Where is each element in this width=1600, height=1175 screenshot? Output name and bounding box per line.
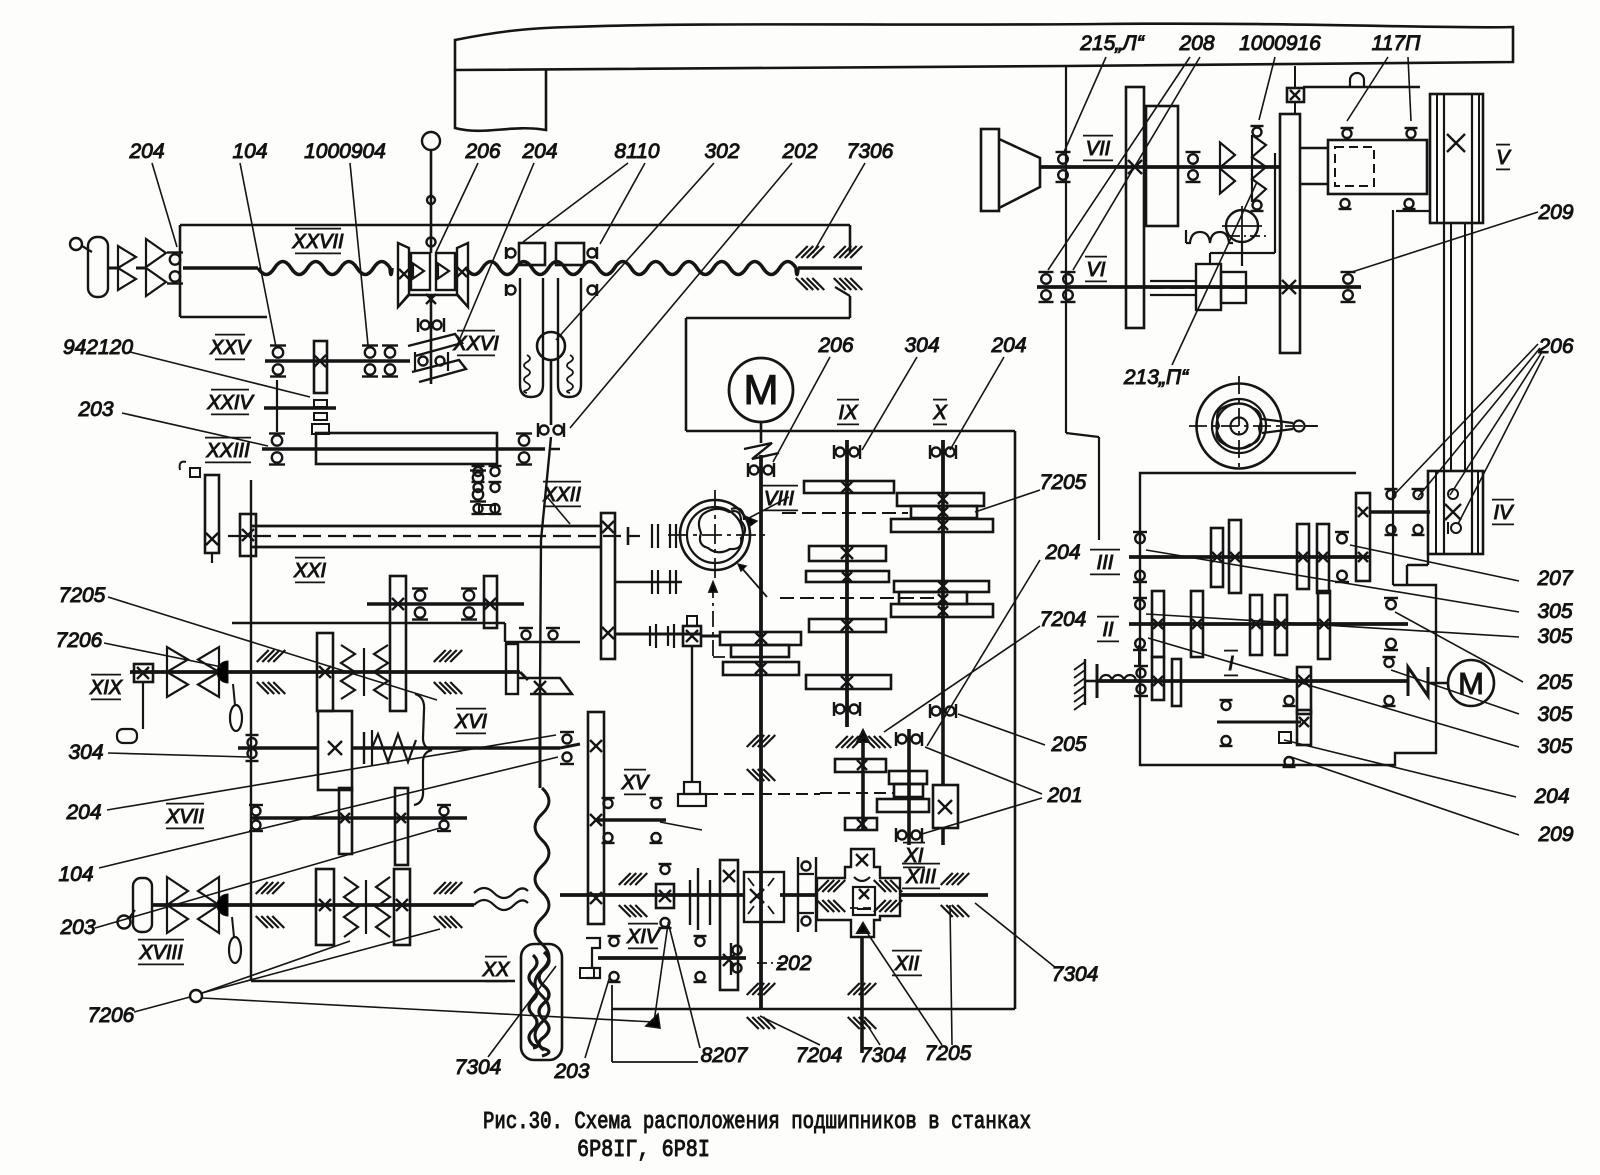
svg-text:8207: 8207 xyxy=(701,1044,749,1067)
svg-text:304: 304 xyxy=(68,741,103,764)
svg-text:7206: 7206 xyxy=(88,1004,135,1027)
svg-text:302: 302 xyxy=(704,140,739,163)
svg-text:XXV: XXV xyxy=(209,337,252,359)
svg-text:206: 206 xyxy=(464,140,500,163)
svg-text:209: 209 xyxy=(1537,823,1573,846)
svg-text:104: 104 xyxy=(232,140,267,163)
svg-text:7204: 7204 xyxy=(1040,608,1087,631)
svg-text:XVII: XVII xyxy=(165,806,204,828)
svg-text:1000916: 1000916 xyxy=(1239,32,1321,55)
svg-text:III: III xyxy=(1097,552,1114,574)
svg-text:204: 204 xyxy=(1533,785,1569,808)
svg-text:206: 206 xyxy=(1537,335,1573,358)
svg-text:XIII: XIII xyxy=(905,866,936,888)
svg-text:305: 305 xyxy=(1537,625,1572,648)
svg-text:7205: 7205 xyxy=(1040,471,1087,494)
svg-text:7306: 7306 xyxy=(847,140,894,163)
svg-text:215„Л“: 215„Л“ xyxy=(1079,32,1144,55)
svg-text:7205: 7205 xyxy=(925,1042,972,1065)
svg-text:305: 305 xyxy=(1537,703,1572,726)
svg-text:202: 202 xyxy=(781,140,817,163)
svg-text:XX: XX xyxy=(482,959,510,981)
svg-text:V: V xyxy=(1496,147,1511,169)
svg-text:7304: 7304 xyxy=(1052,963,1099,986)
svg-text:XIV: XIV xyxy=(626,926,661,948)
svg-text:7204: 7204 xyxy=(796,1044,843,1067)
svg-text:205: 205 xyxy=(1050,733,1086,756)
svg-text:7206: 7206 xyxy=(56,629,103,652)
svg-text:X: X xyxy=(932,402,947,424)
svg-text:I: I xyxy=(1228,653,1234,675)
svg-text:7205: 7205 xyxy=(59,584,106,607)
svg-text:XV: XV xyxy=(621,772,650,794)
svg-text:VIII: VIII xyxy=(764,488,794,510)
svg-text:204: 204 xyxy=(1044,541,1080,564)
svg-text:204: 204 xyxy=(521,140,557,163)
svg-text:201: 201 xyxy=(1046,784,1082,807)
svg-text:203: 203 xyxy=(77,398,113,421)
svg-text:202: 202 xyxy=(775,952,811,975)
svg-text:Рис.30. Схема расположения под: Рис.30. Схема расположения подшипников в… xyxy=(483,1109,1031,1136)
svg-text:209: 209 xyxy=(1537,201,1573,224)
svg-text:203: 203 xyxy=(553,1060,589,1083)
svg-text:XXVII: XXVII xyxy=(291,231,344,253)
svg-text:XVI: XVI xyxy=(454,711,488,733)
svg-text:213„П“: 213„П“ xyxy=(1123,366,1189,389)
svg-text:VII: VII xyxy=(1086,138,1111,160)
svg-text:II: II xyxy=(1102,619,1114,641)
svg-text:204: 204 xyxy=(990,334,1026,357)
svg-text:IV: IV xyxy=(1494,502,1515,524)
svg-text:7304: 7304 xyxy=(860,1044,907,1067)
svg-text:205: 205 xyxy=(1536,671,1572,694)
svg-text:6Р8IГ, 6Р8I: 6Р8IГ, 6Р8I xyxy=(577,1137,710,1164)
svg-text:7304: 7304 xyxy=(455,1056,502,1079)
svg-text:204: 204 xyxy=(128,140,164,163)
svg-text:XVIII: XVIII xyxy=(138,942,183,964)
svg-text:XXVI: XXVI xyxy=(452,333,499,355)
svg-text:XXI: XXI xyxy=(293,560,327,582)
svg-text:VI: VI xyxy=(1087,259,1106,281)
svg-text:203: 203 xyxy=(59,916,95,939)
svg-text:IX: IX xyxy=(839,402,859,424)
svg-text:M: M xyxy=(1458,666,1484,701)
svg-text:104: 104 xyxy=(58,863,93,886)
svg-text:204: 204 xyxy=(65,801,101,824)
svg-text:206: 206 xyxy=(817,334,853,357)
svg-text:208: 208 xyxy=(1178,32,1214,55)
svg-text:942120: 942120 xyxy=(63,336,133,359)
svg-text:XXII: XXII xyxy=(542,484,581,506)
svg-text:XII: XII xyxy=(894,953,920,975)
svg-text:117П: 117П xyxy=(1372,32,1421,55)
svg-text:M: M xyxy=(744,366,779,413)
svg-text:305: 305 xyxy=(1537,600,1572,623)
svg-text:XXIV: XXIV xyxy=(206,392,254,414)
svg-text:8110: 8110 xyxy=(614,140,659,163)
svg-text:XIX: XIX xyxy=(89,677,123,699)
svg-text:1000904: 1000904 xyxy=(304,140,386,163)
svg-text:XXIII: XXIII xyxy=(205,440,250,462)
svg-text:305: 305 xyxy=(1537,735,1572,758)
svg-text:304: 304 xyxy=(904,334,939,357)
svg-text:207: 207 xyxy=(1536,567,1573,590)
